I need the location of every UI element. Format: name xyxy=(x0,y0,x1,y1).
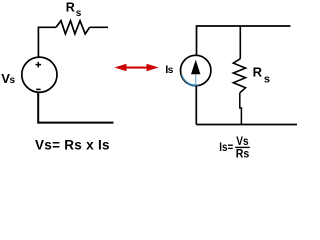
minus sign inside voltage source xyxy=(36,88,40,90)
blue highlight arc on current source (inner light band) xyxy=(182,74,199,85)
svg-text:s: s xyxy=(168,65,174,76)
wire: left circuit bottom with corner xyxy=(38,92,113,122)
svg-text:s: s xyxy=(76,8,82,19)
fraction bar xyxy=(235,146,250,148)
resistor R_s (parallel, vertical zigzag) xyxy=(233,59,245,93)
current source Is (circle) xyxy=(181,55,211,85)
plus sign inside voltage source xyxy=(36,62,42,68)
svg-text:R: R xyxy=(66,0,75,14)
wire: left circuit top wire with corner xyxy=(38,27,56,57)
svg-text:Is=: Is= xyxy=(219,142,233,154)
red equivalence double arrow xyxy=(114,64,158,71)
wire: top right stub of left circuit xyxy=(90,26,108,28)
svg-text:Vs: Vs xyxy=(236,136,248,148)
wire: right circuit bottom rail xyxy=(196,124,297,126)
wire: resistor top lead xyxy=(239,26,241,59)
svg-text:Rs: Rs xyxy=(236,149,250,161)
svg-text:s: s xyxy=(264,73,270,85)
svg-text:R: R xyxy=(253,65,263,80)
wire: resistor bottom lead with jog xyxy=(240,93,242,125)
resistor R_s (series, horizontal zigzag) xyxy=(56,21,90,34)
blue highlight arc on current source (dark bottom) xyxy=(187,83,197,86)
wire: current source bottom lead xyxy=(195,86,197,125)
wire: right circuit top rail with corner xyxy=(197,26,291,55)
arrow inside current source (blue shaft) xyxy=(195,74,197,86)
svg-text:Vs= Rs x Is: Vs= Rs x Is xyxy=(35,138,110,153)
voltage source Vs (circle) xyxy=(22,57,57,92)
svg-text:s: s xyxy=(10,75,16,86)
arrow inside current source (black triangle) xyxy=(191,60,200,74)
